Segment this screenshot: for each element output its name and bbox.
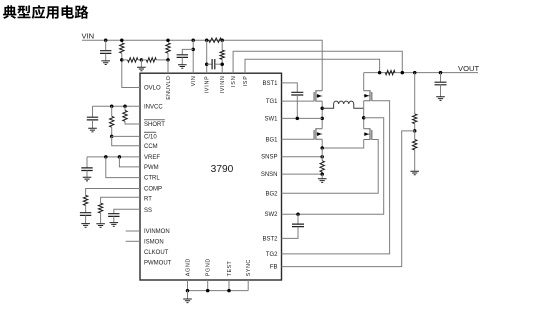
svg-text:CCM: CCM [144, 144, 158, 150]
junction IVINP cap tap [205, 62, 209, 66]
wire ISP to output sense [245, 59, 380, 73]
wire right switch leg [363, 101, 365, 129]
resistor R-enuvlo-top [166, 43, 170, 60]
inductor L1 [322, 101, 364, 108]
capacitor C-bst2 [282, 214, 305, 238]
ground ss [110, 223, 119, 227]
wire left switch leg [321, 101, 323, 129]
junction INVCC b [123, 105, 127, 109]
capacitor C-vin bypass [177, 49, 194, 64]
transistor Q4 bottom-right [364, 128, 372, 140]
svg-text:BG1: BG1 [265, 137, 278, 143]
junction PGND [206, 289, 210, 293]
ground comp [81, 224, 90, 228]
resistor R-fb-top [413, 73, 417, 131]
svg-text:SW2: SW2 [264, 212, 278, 218]
junction divider mid [140, 58, 144, 62]
capacitor C-comp [80, 205, 91, 223]
junction VIN rail x=121.8 [120, 38, 124, 42]
wire VIN pin lead [192, 40, 194, 73]
svg-text:ISMON: ISMON [144, 239, 164, 245]
junction shunt top [320, 146, 324, 150]
wire SNSN [282, 173, 323, 175]
svg-text:SS: SS [144, 208, 152, 214]
junction divider node A [120, 58, 124, 62]
resistor R-div-left [122, 58, 142, 62]
capacitor C-vref [81, 157, 92, 177]
ground C-vref [83, 177, 92, 181]
resistor R-ivinn [220, 40, 224, 73]
junction VIN lead cap tap [191, 48, 195, 52]
resistor R-sense-in on VIN rail [209, 38, 222, 42]
svg-text:PWMOUT: PWMOUT [144, 260, 172, 266]
wire VOUT rail [364, 72, 478, 74]
ground rt [96, 224, 105, 228]
wire IVINP lead [206, 40, 208, 73]
svg-text:TG2: TG2 [266, 252, 278, 258]
junction SNSN tap [320, 172, 324, 176]
svg-text:CTRL: CTRL [144, 176, 160, 182]
ground C-out [436, 97, 445, 101]
svg-text:COMP: COMP [144, 187, 162, 193]
junction VIN rail x=222.2 [220, 38, 224, 42]
junction FB tap [413, 129, 417, 133]
capacitor C-invcc [87, 106, 98, 128]
transistor Q1 top-left [314, 90, 322, 101]
wire SYNC lead [247, 280, 249, 291]
op IC U1 3790 [140, 73, 282, 280]
svg-text:TG1: TG1 [266, 99, 278, 105]
svg-text:FB: FB [270, 265, 278, 271]
wire PGND lead [207, 280, 209, 291]
svg-text:OVLO: OVLO [144, 86, 161, 92]
wire BG2 net [282, 140, 379, 194]
resistor R-shunt [320, 148, 324, 174]
wire TEST lead [228, 280, 230, 291]
junction IVINN cap tap [220, 62, 224, 66]
wire ISMON stub [126, 240, 140, 242]
junction SW2 leg [362, 116, 366, 120]
capacitor C-in bulk [100, 40, 111, 60]
svg-text:VREF: VREF [144, 155, 160, 161]
junction VREF a [104, 155, 108, 159]
capacitor C-out [435, 73, 447, 97]
svg-text:ISP: ISP [243, 76, 249, 87]
svg-text:INVCC: INVCC [144, 104, 163, 110]
resistor R-ovlo-top [120, 43, 124, 60]
transistor Q3 top-right [364, 90, 372, 101]
wire BG1 [282, 138, 315, 140]
svg-text:AGND: AGND [186, 259, 192, 277]
wire VREF [87, 156, 140, 158]
junction VIN rail x=206.7 [205, 38, 209, 42]
junction VREF b [118, 155, 122, 159]
wire VREF to CTRL [106, 157, 140, 178]
svg-text:CLKOUT: CLKOUT [144, 250, 169, 256]
svg-text:ISN: ISN [231, 76, 237, 87]
resistor R-short pullup [123, 106, 140, 124]
junction ISP tap [378, 71, 382, 75]
svg-text:SHORT: SHORT [144, 122, 165, 128]
junction VIN rail x=168.0 [166, 38, 170, 42]
resistor R-div-right [141, 58, 168, 62]
ground shunt [318, 174, 327, 182]
svg-text:ENUVLO: ENUVLO [166, 76, 172, 100]
wire Q2 source down [321, 139, 323, 148]
wire VIN rail [82, 40, 322, 91]
junction VOUT cap tap [439, 71, 443, 75]
wire SW1 [282, 117, 323, 119]
capacitor C-ivin filter [207, 59, 223, 69]
svg-text:SNSN: SNSN [261, 172, 278, 178]
wire SW2 net [282, 118, 384, 214]
wire ISN to output sense [233, 51, 402, 73]
transistor Q2 bottom-left [314, 128, 322, 140]
wire C/10 pin [112, 135, 140, 137]
ground divider mid [137, 60, 146, 71]
svg-text:VIN: VIN [191, 76, 197, 86]
ground C-vin [178, 65, 187, 69]
svg-text:IVINP: IVINP [205, 76, 211, 94]
junction BST1 cap / SW1 [296, 117, 300, 121]
junction C/10 node [110, 135, 114, 139]
wire RT [101, 197, 140, 203]
junction FB divider tap [413, 71, 417, 75]
junction AGND [186, 289, 190, 293]
wire FB net [282, 131, 415, 267]
wire SS [114, 209, 140, 213]
ground R-fb-bot [410, 171, 419, 175]
svg-text:SW1: SW1 [264, 116, 278, 122]
junction VIN rail x=193.2 [191, 38, 195, 42]
wire ground rail Q2-Q4 [322, 140, 364, 149]
svg-text:IVINN: IVINN [220, 76, 226, 93]
junction TEST [227, 289, 231, 293]
overline C/10 [144, 131, 156, 133]
svg-text:VIN: VIN [82, 32, 95, 41]
wire VREF to PWM [119, 157, 140, 167]
junction SNSP tap [320, 155, 324, 159]
svg-text:IVINMON: IVINMON [144, 229, 170, 235]
title 典型应用电路 [3, 5, 88, 19]
ground C-invcc [88, 128, 97, 132]
svg-text:TEST: TEST [227, 260, 233, 276]
svg-text:BG2: BG2 [265, 191, 278, 197]
capacitor C-ss [108, 214, 119, 223]
junction ISN tap [401, 71, 405, 75]
junction INVCC a [110, 105, 114, 109]
wire IVINMON stub [126, 230, 140, 232]
resistor R-rt [98, 203, 102, 223]
wire SNSP [282, 156, 323, 158]
junction SW2 BST2 cap tap [296, 212, 300, 216]
junction VIN rail x=105.7 [104, 38, 108, 42]
ground AGND [183, 291, 192, 303]
svg-text:C/10: C/10 [144, 134, 157, 140]
svg-text:BST1: BST1 [262, 81, 278, 87]
svg-text:SYNC: SYNC [246, 260, 252, 277]
svg-text:PWM: PWM [144, 165, 159, 171]
wire INVCC [93, 105, 141, 107]
svg-text:VOUT: VOUT [458, 64, 479, 73]
ground C-in [101, 61, 110, 65]
junction SW1 leg [320, 117, 324, 121]
wire ENUVLO lead [167, 60, 169, 73]
resistor R-c10 pullup [110, 106, 114, 136]
junction inductor left [320, 107, 324, 111]
overline SHORT [144, 119, 165, 121]
resistor R-fb-bot [413, 131, 417, 171]
wire COMP [86, 189, 140, 196]
svg-text:3790: 3790 [211, 164, 234, 175]
wire TG1 [282, 100, 315, 102]
resistor R-sense-out [385, 70, 395, 74]
wire OVLO pin to divider node [122, 60, 140, 88]
wire AGND lead [187, 280, 189, 291]
wire CCM link [112, 136, 140, 145]
svg-text:PGND: PGND [206, 259, 212, 277]
svg-text:BST2: BST2 [262, 236, 278, 242]
capacitor C-bst1 [282, 83, 304, 119]
svg-text:SNSP: SNSP [261, 155, 277, 161]
resistor R-comp [83, 195, 87, 205]
svg-text:RT: RT [144, 196, 152, 202]
wire VOUT drop to Q3 [363, 73, 365, 91]
junction node B ENUVLO [166, 58, 170, 62]
wire TG2 net [282, 101, 390, 254]
wire bottom bus [188, 290, 249, 292]
